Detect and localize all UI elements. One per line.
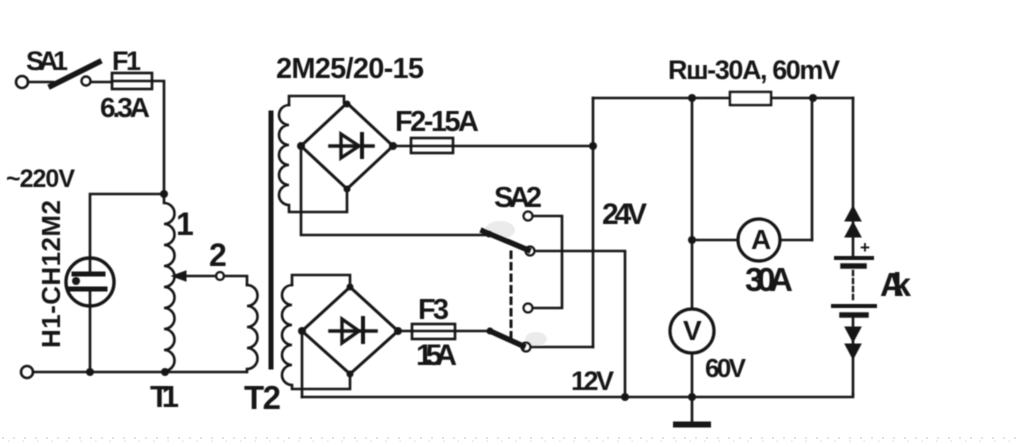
svg-text:+: +	[860, 238, 870, 257]
svg-text:F3: F3	[418, 294, 449, 326]
svg-text:F2-15A: F2-15A	[395, 106, 479, 138]
svg-text:SA1: SA1	[26, 46, 68, 76]
svg-text:T1: T1	[150, 379, 179, 414]
svg-text:30A: 30A	[745, 261, 793, 298]
svg-text:~220V: ~220V	[6, 165, 75, 193]
svg-text:24V: 24V	[602, 198, 647, 231]
svg-text:H1-CH12M2: H1-CH12M2	[36, 200, 66, 348]
svg-text:V: V	[683, 315, 702, 346]
svg-text:2M25/20-15: 2M25/20-15	[276, 53, 424, 85]
svg-text:15A: 15A	[416, 339, 457, 372]
svg-text:1: 1	[176, 206, 194, 242]
svg-text:60V: 60V	[705, 353, 747, 383]
svg-text:12V: 12V	[571, 366, 614, 396]
svg-text:6.3A: 6.3A	[100, 92, 150, 123]
svg-text:F1: F1	[112, 46, 141, 76]
svg-text:2: 2	[209, 237, 227, 273]
svg-text:Rш-30A, 60mV: Rш-30A, 60mV	[668, 55, 840, 85]
svg-text:Ak: Ak	[880, 266, 912, 303]
svg-text:SA2: SA2	[494, 182, 542, 214]
svg-text:T2: T2	[244, 379, 281, 416]
svg-text:A: A	[751, 224, 771, 255]
